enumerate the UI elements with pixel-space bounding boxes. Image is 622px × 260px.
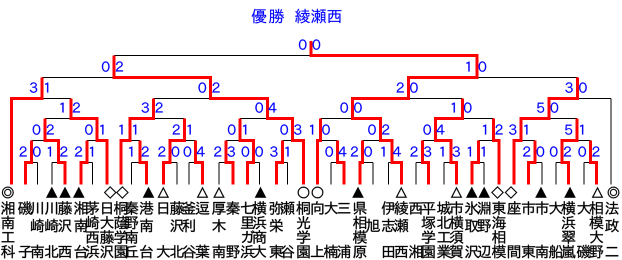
team 1: 湘南工科 bbox=[1, 201, 14, 214]
team 25: 三浦 bbox=[338, 203, 351, 213]
team 9: 桐蔭学園 bbox=[114, 201, 127, 214]
final: winner path + champion stub bbox=[311, 41, 477, 78]
team 40: 大船 bbox=[549, 202, 562, 215]
team 27: 旭 bbox=[366, 219, 380, 232]
team 14: 釜利谷 bbox=[182, 202, 196, 215]
team 8: 日大藤沢 bbox=[102, 202, 112, 214]
red winner paths bbox=[25, 141, 31, 185]
team 26: 県相模原 bbox=[354, 202, 367, 215]
team 18: 七里ガ浜 bbox=[241, 202, 254, 214]
team 4: 川崎北 bbox=[45, 202, 57, 215]
title: champion Ayase-Nishi bbox=[252, 9, 342, 24]
team 12: 日大 bbox=[159, 202, 169, 214]
team 15: 逗葉 bbox=[196, 202, 210, 215]
team 7: 茅崎西浜 bbox=[86, 201, 99, 214]
team 23: 向上 bbox=[312, 201, 324, 214]
team 31: 平塚学園 bbox=[422, 202, 435, 214]
seed/result symbols bbox=[2, 186, 619, 199]
score digits bbox=[19, 39, 599, 156]
round4 match lines bbox=[12, 98, 72, 100]
team 13: 藤沢北 bbox=[170, 201, 184, 215]
team 11: 港南台 bbox=[140, 201, 154, 214]
team 17: 秦野 bbox=[226, 201, 240, 215]
team 32: 城北工業 bbox=[437, 201, 451, 214]
team 3: 川崎南 bbox=[31, 202, 43, 215]
team 33: 市横須賀 bbox=[450, 201, 463, 214]
team 38: 市東 bbox=[522, 201, 535, 214]
team 35: 淵野辺 bbox=[478, 202, 491, 215]
team 16: 厚木南 bbox=[212, 202, 225, 215]
team 21: 瀬谷 bbox=[281, 201, 295, 215]
team 37: 座間 bbox=[507, 201, 520, 214]
team 22: 桐光学園 bbox=[296, 201, 309, 214]
team names (vertical) bbox=[1, 201, 619, 258]
team 39: 市南 bbox=[535, 201, 548, 214]
team 24: 大楠 bbox=[325, 202, 338, 215]
team 28: 伊志田 bbox=[382, 201, 396, 215]
first-round pair lines bbox=[25, 162, 37, 164]
team 2: 磯子 bbox=[18, 201, 32, 215]
round3 match lines bbox=[45, 118, 97, 120]
team 20: 弥栄東 bbox=[270, 201, 283, 214]
team 10: 秦野南丘 bbox=[125, 201, 139, 215]
team 36: 東海相模 bbox=[492, 201, 505, 214]
team 19: 横浜商大 bbox=[252, 201, 266, 215]
team 42: 大磯 bbox=[578, 202, 591, 215]
team 29: 綾瀬西 bbox=[394, 201, 408, 215]
team 41: 横浜翠嵐 bbox=[561, 201, 575, 215]
team 44: 法政二 bbox=[605, 201, 618, 214]
losing team leaf lines bbox=[37, 163, 39, 185]
team 43: 相模大野 bbox=[590, 201, 603, 214]
semifinal lines bbox=[42, 77, 211, 79]
team 30: 西湘 bbox=[409, 202, 422, 214]
final frame line bbox=[114, 55, 477, 57]
team 34: 氷取沢 bbox=[465, 201, 479, 214]
round2 match lines bbox=[31, 140, 58, 142]
team 5: 藤沢西 bbox=[58, 201, 72, 215]
team 6: 湘南台 bbox=[74, 201, 87, 214]
